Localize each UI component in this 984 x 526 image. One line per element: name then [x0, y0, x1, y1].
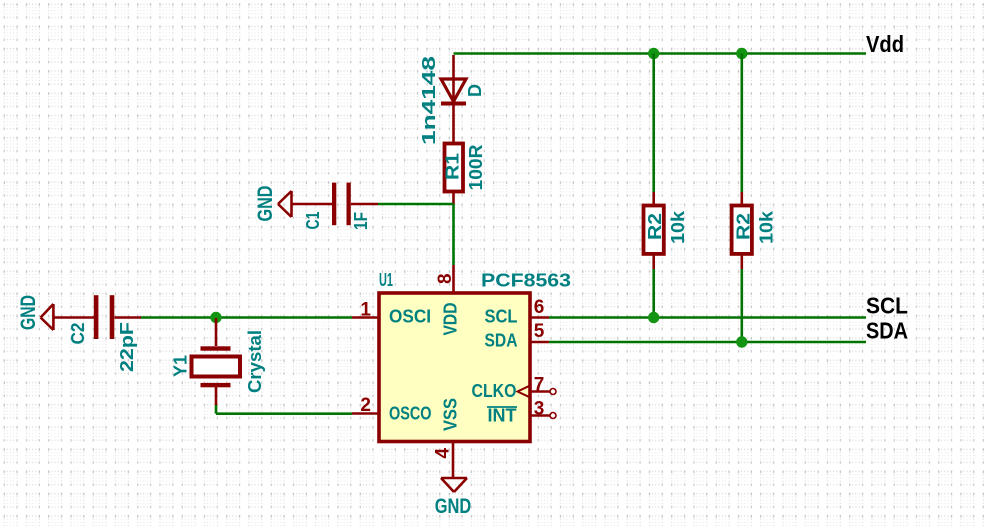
junction Vdd rail / R2 left column: [648, 48, 659, 59]
pin name SCL: [485, 307, 518, 327]
value label 10k (right): [756, 210, 776, 244]
pin number 1: [360, 300, 371, 321]
svg-text:Y1: Y1: [171, 355, 191, 377]
svg-text:10k: 10k: [756, 210, 776, 244]
value label 22pF: [117, 322, 137, 372]
wire C2 row to pin 1: [141, 316, 352, 319]
power label GND below U1: [435, 495, 472, 518]
value label 10k (left): [668, 210, 688, 244]
pin number 3: [534, 399, 545, 420]
svg-text:OSCO: OSCO: [389, 404, 432, 424]
pin 6 SCL: [529, 316, 549, 319]
svg-text:VDD: VDD: [441, 303, 461, 336]
svg-text:10k: 10k: [668, 210, 688, 244]
reference label R2 (right): [733, 213, 753, 240]
svg-text:22pF: 22pF: [117, 322, 137, 372]
svg-text:2: 2: [360, 395, 371, 416]
pin 2 OSCO: [352, 412, 378, 415]
junction SCL / R2 left: [648, 312, 659, 323]
ground symbol at C2: [41, 304, 54, 330]
capacitor C1: [292, 183, 378, 226]
ground symbol below U1: [441, 478, 467, 492]
svg-text:GND: GND: [17, 295, 40, 330]
wire R1 bottom down to pin 8: [452, 204, 455, 265]
reference label D: [465, 84, 485, 97]
pin 8 VDD: [452, 265, 455, 292]
svg-text:R2: R2: [733, 213, 753, 240]
junction SDA / R2 right: [736, 336, 747, 347]
svg-text:R1: R1: [443, 153, 463, 180]
value label 1n4148: [419, 56, 439, 145]
svg-text:CLKO: CLKO: [472, 381, 517, 401]
power label GND at C1: [254, 186, 277, 222]
svg-text:7: 7: [534, 375, 545, 396]
reference label R1: [443, 153, 463, 180]
svg-text:OSCI: OSCI: [389, 307, 431, 327]
svg-text:1n4148: 1n4148: [419, 56, 439, 145]
svg-text:INT: INT: [488, 406, 517, 426]
wire R2 right down to SDA line: [740, 269, 743, 342]
pin 4 VSS: [452, 442, 455, 478]
pin name OSCI: [389, 307, 431, 327]
svg-text:SCL: SCL: [485, 307, 518, 327]
pin number 4: [433, 448, 454, 459]
wire SCL: [549, 316, 866, 319]
junction Vdd rail / R2 right column: [736, 48, 747, 59]
svg-text:SDA: SDA: [866, 318, 908, 344]
svg-text:C2: C2: [68, 323, 88, 345]
svg-text:SCL: SCL: [866, 293, 908, 319]
pin 5 SDA: [529, 341, 549, 344]
pin name INT with overline: [487, 406, 517, 426]
reference label Y1: [171, 355, 191, 377]
svg-text:SDA: SDA: [485, 331, 518, 351]
value label 100R: [466, 144, 486, 190]
crystal Y1: [192, 318, 241, 405]
capacitor C2: [54, 295, 142, 339]
net label SDA: [866, 318, 908, 344]
resistor R2 (right, pull-up on SDA): [732, 192, 752, 269]
reference label U1: [379, 270, 393, 290]
pin number 7: [534, 375, 545, 396]
svg-text:GND: GND: [254, 186, 277, 222]
reference label R2 (left): [645, 213, 665, 240]
diode D 1n4148: [441, 55, 466, 142]
pin name CLKO: [472, 381, 517, 401]
net label Vdd: [866, 31, 904, 57]
IC U1 PCF8563 body: [379, 293, 530, 442]
junction OSCI node / crystal: [210, 312, 221, 323]
value label Crystal: [245, 330, 265, 393]
pin 1 OSCI: [352, 316, 378, 319]
svg-text:8: 8: [435, 273, 456, 284]
svg-text:1: 1: [360, 300, 371, 321]
svg-text:6: 6: [534, 297, 545, 318]
wire Vdd rail down to R2 right: [740, 54, 743, 193]
pin name VDD: [441, 303, 461, 336]
wire Vdd rail down to R2 left: [652, 54, 655, 193]
ground symbol at C1: [278, 191, 292, 217]
svg-text:100R: 100R: [466, 144, 486, 190]
svg-text:4: 4: [433, 448, 454, 459]
svg-text:Crystal: Crystal: [245, 330, 265, 393]
net label SCL: [866, 293, 908, 319]
svg-text:PCF8563: PCF8563: [481, 271, 571, 291]
svg-text:GND: GND: [435, 495, 472, 518]
reference label C2: [68, 323, 88, 345]
power label GND at C2: [17, 295, 40, 330]
pin number 5: [534, 321, 545, 342]
svg-text:1F: 1F: [351, 212, 371, 230]
wire Vdd rail: [454, 52, 867, 55]
wire R2 left down to SCL line: [652, 269, 655, 318]
pin name OSCO: [389, 404, 432, 424]
pin name VSS: [441, 398, 461, 431]
pin number 6: [534, 297, 545, 318]
svg-text:U1: U1: [379, 270, 393, 290]
svg-text:R2: R2: [645, 213, 665, 240]
svg-text:C1: C1: [303, 212, 323, 230]
pin number 8: [435, 273, 456, 284]
wire SDA: [549, 341, 866, 344]
resistor R2 (left, pull-up on SCL): [644, 192, 664, 269]
pin 7 CLKO (clock output, unconnected): [518, 386, 557, 397]
value label 1F: [351, 212, 371, 230]
svg-text:Vdd: Vdd: [866, 31, 904, 57]
svg-text:VSS: VSS: [441, 398, 461, 431]
pin number 2: [360, 395, 371, 416]
resistor R1: [445, 144, 464, 205]
wire crystal bottom to pin 2: [216, 405, 352, 414]
svg-text:3: 3: [534, 399, 545, 420]
svg-text:D: D: [465, 84, 485, 97]
pin name SDA: [485, 331, 518, 351]
svg-text:5: 5: [534, 321, 545, 342]
reference label C1: [303, 212, 323, 230]
value label PCF8563: [481, 271, 571, 291]
wire C1 row to R1/pin8 node: [378, 203, 454, 206]
pin 3 INT (active low, unconnected): [529, 413, 556, 419]
